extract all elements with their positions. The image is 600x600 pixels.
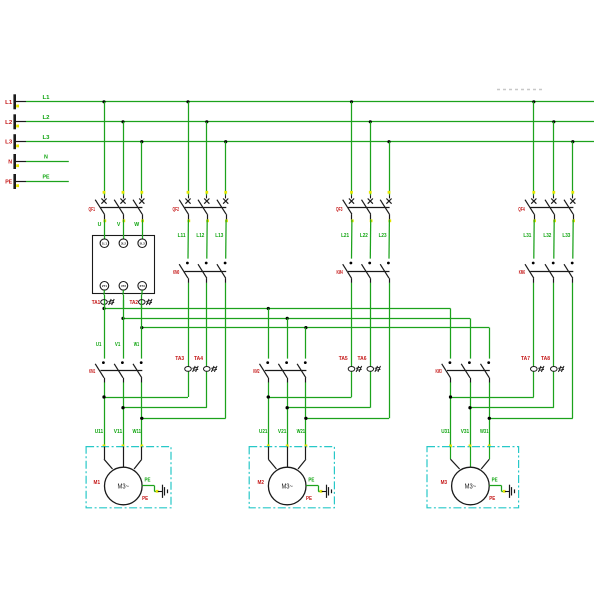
svg-text:PE: PE bbox=[308, 478, 315, 484]
svg-text:2T1: 2T1 bbox=[102, 284, 108, 288]
svg-text:TA8: TA8 bbox=[541, 356, 550, 362]
svg-text:M2: M2 bbox=[257, 480, 264, 486]
svg-text:W21: W21 bbox=[297, 429, 306, 435]
svg-text:PE: PE bbox=[492, 478, 499, 484]
svg-text:M3: M3 bbox=[441, 480, 448, 486]
svg-text:V21: V21 bbox=[278, 429, 287, 435]
svg-text:KM1: KM1 bbox=[89, 369, 95, 375]
svg-text:L2: L2 bbox=[43, 115, 50, 121]
svg-text:U1: U1 bbox=[96, 342, 102, 348]
svg-text:V: V bbox=[117, 222, 121, 228]
svg-text:4T2: 4T2 bbox=[121, 284, 127, 288]
svg-text:PE: PE bbox=[145, 478, 152, 484]
svg-text:TA5: TA5 bbox=[339, 356, 348, 362]
svg-text:L12: L12 bbox=[196, 233, 204, 239]
svg-text:PE: PE bbox=[142, 496, 149, 502]
svg-text:V1: V1 bbox=[115, 342, 121, 348]
svg-text:TA1: TA1 bbox=[92, 300, 101, 306]
svg-text:5L3: 5L3 bbox=[140, 241, 146, 245]
svg-text:QF3: QF3 bbox=[336, 207, 343, 213]
svg-text:L1: L1 bbox=[5, 100, 12, 106]
svg-text:1L1: 1L1 bbox=[102, 241, 108, 245]
svg-text:L2: L2 bbox=[5, 120, 12, 126]
svg-text:L33: L33 bbox=[562, 233, 570, 239]
svg-text:L1: L1 bbox=[43, 95, 50, 101]
svg-text:KM4: KM4 bbox=[337, 270, 343, 276]
svg-text:TA3: TA3 bbox=[175, 356, 184, 362]
svg-text:KM3: KM3 bbox=[436, 369, 442, 375]
svg-text:V31: V31 bbox=[461, 429, 470, 435]
svg-text:TA7: TA7 bbox=[521, 356, 530, 362]
svg-text:L32: L32 bbox=[543, 233, 551, 239]
svg-text:TA6: TA6 bbox=[358, 356, 367, 362]
svg-text:W11: W11 bbox=[133, 429, 142, 435]
svg-text:N: N bbox=[44, 155, 48, 161]
svg-text:L22: L22 bbox=[360, 233, 368, 239]
svg-text:W1: W1 bbox=[134, 342, 140, 348]
svg-text:QF1: QF1 bbox=[89, 207, 96, 213]
svg-text:L3: L3 bbox=[5, 140, 12, 146]
svg-text:PE: PE bbox=[43, 175, 50, 181]
svg-text:M3~: M3~ bbox=[281, 482, 293, 491]
svg-text:L13: L13 bbox=[215, 233, 223, 239]
svg-text:PE: PE bbox=[489, 496, 496, 502]
svg-text:KM0: KM0 bbox=[173, 270, 179, 276]
svg-text:KM2: KM2 bbox=[253, 369, 259, 375]
svg-text:PE: PE bbox=[5, 180, 12, 186]
svg-text:QF4: QF4 bbox=[518, 207, 525, 213]
svg-text:M1: M1 bbox=[94, 480, 101, 486]
svg-text:QF2: QF2 bbox=[173, 207, 180, 213]
svg-text:U21: U21 bbox=[259, 429, 268, 435]
svg-text:L21: L21 bbox=[341, 233, 349, 239]
svg-text:W: W bbox=[134, 222, 139, 228]
svg-text:KM6: KM6 bbox=[519, 270, 525, 276]
svg-text:V11: V11 bbox=[114, 429, 123, 435]
svg-text:TA4: TA4 bbox=[194, 356, 203, 362]
svg-text:6T3: 6T3 bbox=[140, 284, 146, 288]
svg-text:U: U bbox=[98, 222, 102, 228]
svg-text:TA2: TA2 bbox=[130, 300, 139, 306]
svg-text:L11: L11 bbox=[178, 233, 186, 239]
svg-text:L3: L3 bbox=[43, 135, 50, 141]
svg-text:U11: U11 bbox=[95, 429, 104, 435]
svg-text:3L2: 3L2 bbox=[121, 241, 127, 245]
svg-text:PE: PE bbox=[306, 496, 313, 502]
svg-text:W31: W31 bbox=[480, 429, 489, 435]
svg-text:L23: L23 bbox=[379, 233, 387, 239]
svg-text:L31: L31 bbox=[523, 233, 531, 239]
svg-text:N: N bbox=[8, 160, 12, 166]
svg-text:U31: U31 bbox=[441, 429, 450, 435]
svg-text:M3~: M3~ bbox=[465, 482, 477, 491]
svg-text:M3~: M3~ bbox=[118, 482, 130, 491]
